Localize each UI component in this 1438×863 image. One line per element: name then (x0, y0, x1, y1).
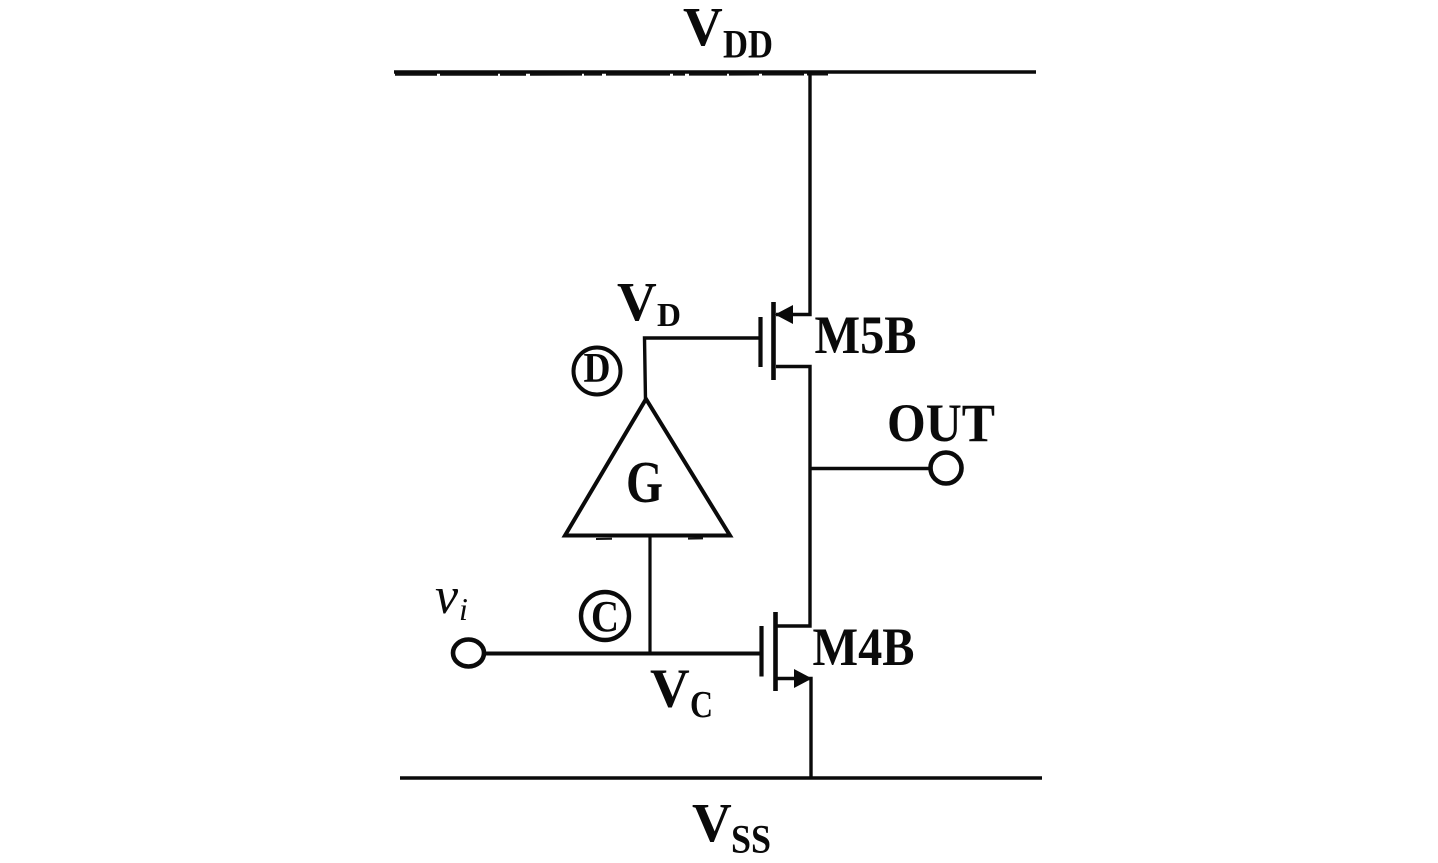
VDD rail (394, 72, 1036, 75)
svg-text:M4B: M4B (813, 617, 915, 677)
svg-text:v: v (435, 568, 459, 625)
OUT wire (810, 467, 929, 471)
wire gate of M5B to node D (645, 338, 761, 400)
OUT terminal circle (931, 453, 962, 484)
M4B source arrow (794, 669, 812, 688)
svg-text:M5B: M5B (815, 305, 917, 365)
svg-text:C: C (591, 592, 619, 641)
V_D label (617, 271, 681, 334)
svg-text:DD: DD (723, 22, 773, 67)
M4B drain lead (777, 469, 810, 627)
M5B drain lead (776, 367, 810, 469)
M5B gate bar (758, 317, 762, 367)
svg-text:SS: SS (731, 817, 771, 862)
VDD label (683, 0, 773, 67)
VSS label (692, 792, 771, 862)
svg-text:D: D (657, 297, 681, 334)
M4B source lead (777, 679, 811, 779)
v_i label (435, 568, 468, 627)
node D circled letter (574, 346, 621, 395)
input wire vi to gate of M4B (485, 652, 760, 656)
svg-text:i: i (459, 591, 468, 627)
node C circled letter (581, 592, 629, 641)
wire G output down to node C (648, 536, 651, 655)
M5B channel bar (771, 302, 776, 380)
svg-text:V: V (617, 271, 657, 332)
input terminal vi circle (453, 640, 484, 667)
M4B channel bar (773, 612, 778, 691)
M5B source arrow (775, 305, 793, 324)
svg-text:D: D (584, 346, 611, 392)
svg-text:V: V (683, 0, 723, 57)
V_C label (650, 658, 713, 727)
svg-text:V: V (692, 792, 732, 853)
transistor M4B (NMOS) (762, 469, 813, 779)
svg-text:V: V (650, 658, 690, 719)
svg-text:C: C (690, 684, 713, 726)
transistor M5B (PMOS) (761, 302, 811, 469)
svg-text:G: G (626, 449, 663, 515)
wire VDD rail to M5B source (776, 72, 810, 315)
op-amp G (triangle amplifier) (565, 399, 730, 539)
svg-text:OUT: OUT (887, 393, 995, 453)
M4B gate bar (759, 626, 763, 677)
VSS rail (400, 776, 1042, 779)
